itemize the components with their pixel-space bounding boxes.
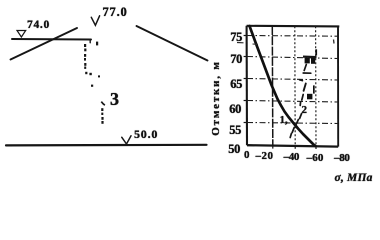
y label 75 xyxy=(226,30,242,45)
label 77.0 xyxy=(103,5,137,20)
crest corner tick xyxy=(89,40,91,43)
curve 1 stress profile xyxy=(250,26,316,146)
x axis title sigma MPa xyxy=(335,172,373,184)
label 3 borehole xyxy=(110,89,124,110)
x label -40 xyxy=(284,151,300,163)
x label -20 xyxy=(256,150,274,162)
y label 65 xyxy=(226,77,242,92)
curve label 1 xyxy=(280,114,288,126)
upstream slope line xyxy=(11,28,78,60)
y label 50 xyxy=(224,142,240,157)
gridline 75 xyxy=(247,35,338,38)
scan artifact dash under 75 label xyxy=(237,42,244,44)
curve 2 marker a lower xyxy=(307,85,315,99)
elevation check mark 77.0 xyxy=(91,16,99,25)
gridline -40 xyxy=(294,26,296,145)
gridline 55 xyxy=(247,123,338,124)
y label 70 xyxy=(226,52,242,67)
axis ticks bottom xyxy=(273,145,316,149)
downstream slope line xyxy=(137,26,208,61)
water level symbol nabla xyxy=(17,31,26,38)
x label -80 xyxy=(334,152,350,164)
curve 2 marker a upper xyxy=(305,49,317,64)
gridline 70 xyxy=(247,57,338,59)
x label 0 xyxy=(244,149,250,161)
water surface line xyxy=(12,38,91,41)
label 50.0 xyxy=(134,127,168,142)
borehole tick mark xyxy=(101,102,105,106)
y axis title Otmetki m xyxy=(210,60,222,135)
elevation check mark 50.0 xyxy=(122,136,131,144)
scan speck near right border xyxy=(333,40,336,44)
curve label 2 xyxy=(302,104,308,116)
gridline -20 xyxy=(271,26,274,145)
gridline 60 xyxy=(247,101,338,103)
y label 55 xyxy=(225,123,241,138)
scan artifact dash right of curve top xyxy=(253,43,259,45)
solid gridline segment at marker a upper xyxy=(303,55,317,58)
y label 60 xyxy=(225,102,241,117)
chart frame xyxy=(247,26,340,147)
axis ticks left xyxy=(244,36,247,123)
ground line xyxy=(6,144,207,147)
gridline -60 xyxy=(315,26,317,146)
borehole dotted axis xyxy=(84,42,104,124)
curve 2 dashed jagged xyxy=(290,65,311,138)
gridline 65 xyxy=(247,79,338,81)
label 74.0 xyxy=(27,19,57,31)
x label -60 xyxy=(307,152,324,164)
